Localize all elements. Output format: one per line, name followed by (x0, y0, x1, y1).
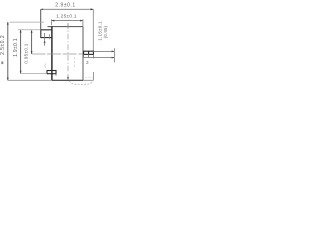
faint hidden dash y77.3 (85, 76, 93, 78)
lead1 inner tick b (49, 34, 51, 39)
bottom extension y80.4 right (83, 79, 93, 81)
svg-text:1.25±0.1: 1.25±0.1 (56, 13, 77, 19)
vertical centerline (67, 23, 69, 74)
lead 1 (upper-left) (41, 30, 52, 38)
small down arrow on centerline bottom (67, 77, 69, 80)
dim line 1.25 (52, 20, 83, 22)
horizontal centerline (32, 53, 84, 55)
arrow left of 1.25 dim (52, 20, 55, 22)
left dim V2 (20, 30, 22, 74)
body top edge (48, 26, 84, 28)
lead3 lower verticals (84, 54, 94, 58)
V2 top extension (18, 29, 41, 31)
svg-text:2.5±0.2: 2.5±0.2 (0, 35, 6, 55)
arrow on y57.6 (112, 57, 115, 59)
right vertical x93.5 lower (92, 72, 94, 80)
right vertical ref x114.5 (113, 48, 115, 62)
faint projection dashes x74.5 (74, 58, 76, 69)
svg-text:3: 3 (86, 60, 89, 65)
extension line right x93.5 (92, 9, 94, 51)
body left edge (bold) (51, 26, 53, 80)
small speck lower-left (1, 62, 3, 65)
lead3 mid vertical top (88, 51, 90, 54)
left dim V1 (7, 22, 9, 80)
svg-text:0.95±0.1: 0.95±0.1 (24, 43, 29, 63)
extension line left x40.5 (40, 9, 42, 30)
centerline top tick accent (67, 24, 69, 29)
lead 3 (right) grid box top (84, 51, 94, 54)
body right edge (82, 27, 84, 81)
arrow right of 2.9 dim (91, 8, 94, 10)
lead2 right tick (55, 74, 57, 76)
bottom extension y80.4 left (8, 79, 52, 81)
svg-text:1.15±0.1: 1.15±0.1 (98, 21, 103, 41)
lead 2 (lower-left) (47, 71, 56, 74)
V2 bottom extension (21, 73, 47, 75)
dashed lead profile below bottom (69, 81, 93, 85)
extension tick left of 1.25 (51, 19, 53, 25)
arrow right of 1.25 dim (80, 20, 83, 22)
left dim V3 0.95 (31, 31, 33, 54)
V1 top extension line (10, 21, 45, 23)
body bottom edge (52, 79, 83, 81)
svg-text:1.9±0.1: 1.9±0.1 (13, 38, 19, 57)
right ext line y51.4 (93, 50, 114, 52)
arrow on y51.4 (112, 51, 115, 53)
lead1 inner tick a (44, 33, 46, 40)
right ext line y57.6 (84, 57, 114, 59)
extension tick right of 1.25 (82, 19, 84, 26)
arrow left of 2.9 dim (41, 9, 44, 11)
svg-text:(0.95): (0.95) (103, 25, 108, 38)
svg-text:2.9±0.1: 2.9±0.1 (55, 2, 76, 8)
dim line 2.9 (41, 8, 94, 10)
small up arrow under lead1 (44, 40, 46, 43)
